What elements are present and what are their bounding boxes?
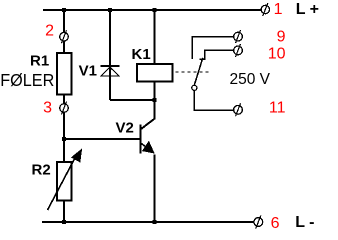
svg-text:10: 10 xyxy=(268,46,286,63)
svg-text:R2: R2 xyxy=(32,162,51,179)
svg-text:6: 6 xyxy=(271,215,280,232)
svg-text:3: 3 xyxy=(43,100,52,117)
svg-text:11: 11 xyxy=(269,100,286,117)
svg-text:V1: V1 xyxy=(79,63,97,80)
svg-text:L +: L + xyxy=(296,1,319,18)
svg-text:V2: V2 xyxy=(116,120,134,137)
svg-text:L -: L - xyxy=(295,214,314,231)
svg-text:250 V: 250 V xyxy=(230,71,271,88)
svg-text:FØLER: FØLER xyxy=(0,70,54,90)
svg-text:9: 9 xyxy=(277,29,286,46)
svg-text:1: 1 xyxy=(274,1,283,18)
svg-text:2: 2 xyxy=(45,23,54,40)
svg-text:K1: K1 xyxy=(132,46,151,63)
svg-text:R1: R1 xyxy=(30,53,49,70)
